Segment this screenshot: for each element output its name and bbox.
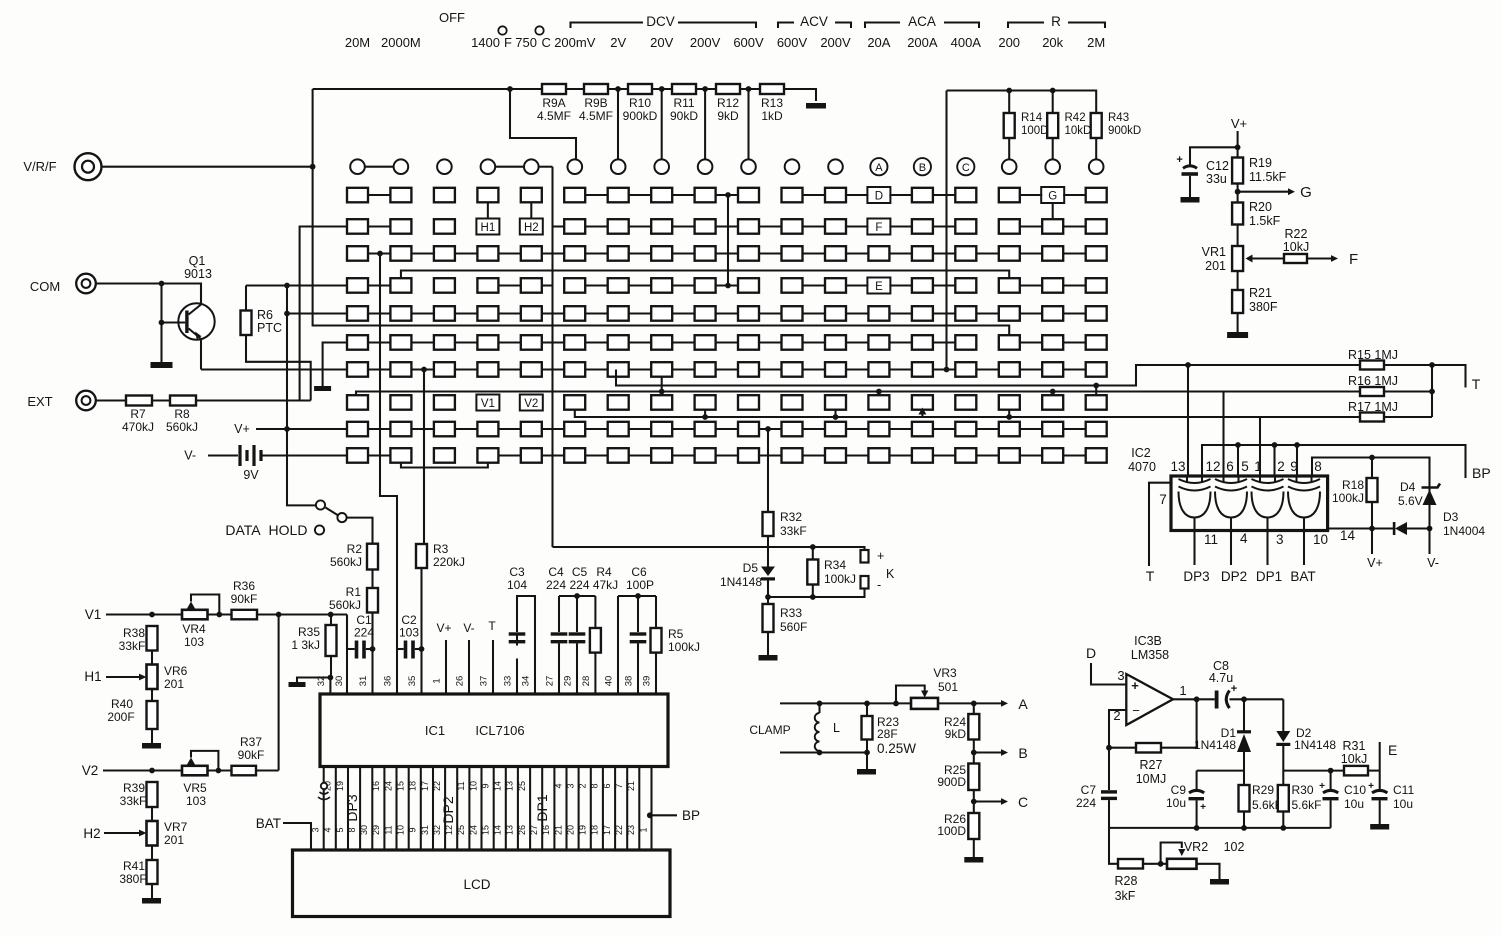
svg-text:200V: 200V: [820, 35, 851, 50]
node D5 junction: [765, 594, 771, 600]
node lineB vert junction: [1429, 389, 1435, 395]
wire R29 down: [1243, 812, 1245, 828]
svg-text:3: 3: [1276, 532, 1284, 547]
wire row6 chains: [368, 341, 1086, 343]
svg-text:H2: H2: [83, 826, 100, 841]
ground after R13: [806, 103, 826, 109]
svg-text:B: B: [919, 162, 926, 174]
switch contact row 1: [347, 188, 1107, 203]
svg-text:R32: R32: [780, 510, 802, 524]
wire C1 leads: [347, 648, 373, 650]
svg-text:BP: BP: [682, 808, 700, 823]
node lineA col18 stub: [1093, 383, 1099, 396]
ground C12: [1181, 197, 1200, 203]
contact minus: [861, 576, 882, 592]
svg-text:DP2: DP2: [1221, 569, 1247, 584]
wire R33 ground: [767, 632, 769, 655]
resistor R37: [232, 735, 265, 775]
svg-text:H1: H1: [481, 222, 496, 234]
resistor R41: [119, 859, 157, 886]
node V+ net row4: [284, 283, 290, 289]
node R35 top: [328, 612, 334, 618]
svg-text:1N4148: 1N4148: [1294, 738, 1336, 752]
wire R30R31 rail: [1283, 770, 1379, 772]
ground row6 stub: [314, 386, 331, 391]
svg-text:R20: R20: [1249, 200, 1272, 214]
svg-text:2: 2: [1277, 459, 1285, 474]
svg-text:VR7: VR7: [164, 820, 188, 834]
wire H1 stub: [487, 202, 489, 218]
node B circled: [914, 158, 931, 175]
svg-text:+: +: [1319, 781, 1325, 792]
svg-text:14: 14: [493, 825, 503, 835]
resistor R20: [1232, 200, 1281, 228]
node pin32 junction: [328, 675, 334, 681]
svg-text:18: 18: [408, 781, 418, 791]
switch contact row 10: [347, 448, 1107, 463]
node output: [1194, 696, 1200, 702]
wire K line: [553, 547, 865, 550]
node V+ row9: [284, 426, 290, 432]
svg-text:R15 1MJ: R15 1MJ: [1348, 348, 1398, 362]
node lineC col14 arrow: [918, 408, 926, 418]
svg-text:1: 1: [1179, 683, 1186, 698]
wire C9R29 rail: [1197, 771, 1244, 789]
wire R7-R8: [152, 399, 170, 401]
svg-text:R34: R34: [824, 558, 846, 572]
svg-text:200mV: 200mV: [554, 35, 596, 50]
svg-text:VR5: VR5: [183, 781, 207, 795]
range labels row: [345, 10, 1105, 50]
label IC2 pin8: [1314, 459, 1322, 474]
wire bottom rail: [1108, 827, 1330, 829]
diode D4 zener: [1398, 480, 1440, 508]
resistor R33: [763, 604, 808, 634]
svg-text:BAT: BAT: [256, 816, 281, 831]
svg-text:37: 37: [479, 676, 490, 687]
wire VR5-R37: [208, 769, 232, 771]
node V+ net row5: [284, 311, 290, 317]
wire G line: [1238, 184, 1312, 201]
resistor R26: [937, 802, 979, 858]
svg-text:21: 21: [553, 825, 563, 835]
svg-text:16: 16: [541, 825, 551, 835]
svg-text:R22: R22: [1285, 227, 1308, 241]
node R24 top: [971, 701, 977, 707]
wire pin26 Vminus: [463, 621, 474, 694]
svg-text:D3: D3: [1443, 510, 1459, 524]
capacitor C5: [569, 565, 590, 643]
wire C9 down: [1196, 800, 1198, 828]
svg-text:14: 14: [1340, 528, 1356, 543]
wire pin8 R18 line: [1312, 458, 1430, 486]
svg-text:35: 35: [407, 676, 418, 687]
wire IC2 pin1 from R17: [1259, 417, 1261, 476]
svg-text:8: 8: [590, 783, 600, 788]
label DP1 rotated: [534, 794, 550, 821]
switch contact row 9: [347, 422, 1107, 437]
label BP right: [1472, 465, 1491, 481]
svg-text:2M: 2M: [1087, 35, 1105, 50]
svg-text:3: 3: [1117, 668, 1124, 683]
svg-text:20A: 20A: [867, 35, 890, 50]
node D1 top: [1241, 696, 1247, 702]
wire C6R5 rail: [618, 596, 656, 694]
svg-text:T: T: [488, 619, 496, 633]
svg-text:31: 31: [358, 676, 369, 687]
svg-text:ACV: ACV: [800, 14, 828, 29]
svg-text:29: 29: [371, 825, 381, 835]
svg-text:1: 1: [638, 827, 648, 832]
svg-text:3kF: 3kF: [1115, 889, 1136, 903]
wire gate outputs: [1195, 531, 1305, 566]
svg-text:+: +: [1131, 678, 1139, 693]
junction R14: [1006, 88, 1012, 160]
svg-text:R7: R7: [130, 407, 146, 421]
svg-text:R27: R27: [1140, 758, 1163, 772]
wire R6 bottom loop: [246, 335, 311, 401]
battery 9V: [184, 445, 347, 482]
svg-text:DP2: DP2: [440, 796, 456, 823]
node row4 junction col10: [725, 283, 731, 289]
wire E stub: [1380, 742, 1398, 771]
resistor R29: [1239, 783, 1283, 812]
svg-text:4.7u: 4.7u: [1209, 671, 1233, 685]
label IC2 pin13: [1170, 459, 1185, 474]
svg-text:C: C: [962, 162, 970, 174]
label DP3 rotated: [344, 794, 360, 821]
wire VR7-R41: [151, 846, 153, 861]
node lineC col16 stub: [1006, 410, 1012, 420]
resistor R25: [937, 753, 979, 802]
svg-text:600V: 600V: [777, 35, 808, 50]
svg-text:C7: C7: [1081, 783, 1097, 797]
node COM junction: [159, 281, 165, 287]
svg-text:23: 23: [626, 825, 636, 835]
label IC2 pin1: [1254, 459, 1262, 474]
svg-text:560kJ: 560kJ: [329, 598, 361, 612]
wire R35 bottom: [330, 656, 332, 678]
resistor R27: [1136, 743, 1167, 786]
node C5 top: [574, 593, 580, 599]
capacitor C2: [399, 613, 419, 659]
svg-text:R43: R43: [1108, 112, 1129, 124]
svg-text:V-: V-: [463, 621, 474, 635]
resistor R34: [807, 547, 856, 597]
svg-text:4: 4: [553, 783, 563, 788]
resistor R6: [241, 308, 283, 335]
svg-text:9kD: 9kD: [945, 727, 967, 741]
svg-text:DP3: DP3: [1183, 569, 1209, 584]
svg-text:H1: H1: [84, 669, 101, 684]
node row7 junction col14: [944, 367, 950, 373]
wire IC2 pin6 from R16: [1222, 392, 1224, 477]
svg-text:103: 103: [399, 626, 419, 640]
node row1 junction: [725, 192, 731, 198]
svg-text:1kD: 1kD: [761, 109, 783, 123]
svg-text:R40: R40: [111, 697, 133, 711]
wire V1 link to V2: [278, 615, 280, 771]
node rail R29: [1241, 825, 1247, 831]
diode D3: [1393, 510, 1486, 538]
svg-text:501: 501: [938, 680, 958, 694]
label IC2 pin9: [1290, 459, 1298, 474]
label IC2 pin3: [1276, 532, 1284, 547]
svg-text:C6: C6: [631, 565, 647, 579]
wire D1 down: [1243, 752, 1245, 785]
svg-text:5.6V: 5.6V: [1398, 494, 1423, 508]
svg-text:E: E: [875, 281, 883, 293]
resistor R10: [623, 84, 658, 123]
svg-text:29: 29: [563, 676, 574, 687]
wire C10 down: [1330, 800, 1332, 828]
resistor R31: [1341, 739, 1368, 775]
svg-text:4: 4: [323, 827, 333, 832]
ground R23: [857, 769, 876, 775]
svg-text:L: L: [833, 721, 840, 735]
wire C11 ground: [1379, 800, 1381, 824]
svg-text:10kJ: 10kJ: [1341, 752, 1367, 766]
wire minus line: [768, 589, 865, 598]
svg-text:DP1: DP1: [1256, 569, 1282, 584]
label CLAMP: [749, 723, 790, 737]
switch contact row 4: [347, 278, 1107, 293]
svg-text:R4: R4: [596, 565, 612, 579]
svg-text:1 3kJ: 1 3kJ: [291, 638, 320, 652]
svg-text:12: 12: [1205, 459, 1220, 474]
label V+ battery: [234, 422, 347, 436]
svg-text:R17 1MJ: R17 1MJ: [1348, 400, 1398, 414]
wire C10 stem: [1330, 771, 1332, 789]
svg-text:0.25W: 0.25W: [877, 741, 916, 756]
wire row9 chain: [368, 428, 1086, 430]
svg-text:30: 30: [334, 676, 345, 687]
svg-text:36: 36: [383, 676, 394, 687]
wire R41 ground: [151, 884, 153, 898]
svg-text:1N4004: 1N4004: [1443, 524, 1485, 538]
resistor R17: [1348, 400, 1398, 422]
svg-text:7: 7: [614, 783, 624, 788]
terminal COM: [30, 274, 96, 294]
svg-text:104: 104: [507, 578, 527, 592]
capacitor C11: [1368, 781, 1414, 811]
node BP pin2: [1272, 442, 1278, 476]
svg-text:600V: 600V: [733, 35, 764, 50]
resistor R1: [329, 585, 378, 613]
svg-text:17: 17: [602, 825, 612, 835]
svg-text:5: 5: [335, 827, 345, 832]
svg-text:+: +: [877, 549, 884, 563]
svg-text:900kD: 900kD: [1108, 125, 1141, 137]
node R18 top: [1369, 455, 1375, 478]
svg-text:1N4148: 1N4148: [1194, 738, 1236, 752]
svg-text:220kJ: 220kJ: [433, 555, 465, 569]
svg-text:224: 224: [1076, 796, 1096, 810]
wire row4 feed: [246, 284, 347, 286]
svg-text:EXT: EXT: [27, 394, 52, 409]
svg-text:V-: V-: [1427, 556, 1439, 570]
svg-text:V/R/F: V/R/F: [23, 159, 56, 174]
node V1 R38: [149, 612, 155, 618]
svg-text:R14: R14: [1021, 112, 1043, 124]
wire C12 branch: [1190, 147, 1238, 164]
resistor R22: [1283, 227, 1309, 263]
svg-text:103: 103: [186, 794, 206, 808]
svg-text:9V: 9V: [243, 468, 259, 482]
svg-text:7: 7: [1159, 492, 1167, 507]
svg-text:90kF: 90kF: [231, 592, 258, 606]
wire VR6-R40: [151, 689, 153, 701]
wire V2 to VR5: [152, 769, 182, 771]
wire R38-VR6: [151, 651, 153, 665]
svg-text:R9B: R9B: [584, 96, 607, 110]
svg-text:400A: 400A: [951, 35, 982, 50]
svg-text:10u: 10u: [1166, 796, 1186, 810]
svg-text:R6: R6: [257, 308, 273, 322]
svg-text:D: D: [875, 191, 883, 203]
wire COM: [96, 284, 201, 304]
svg-text:R38: R38: [123, 626, 145, 640]
svg-text:VR6: VR6: [164, 664, 188, 678]
node R34 bottom: [810, 594, 816, 600]
svg-text:R41: R41: [123, 859, 145, 873]
switch contact row 3: [347, 246, 1107, 261]
svg-text:DP3: DP3: [344, 794, 360, 821]
svg-text:R11: R11: [673, 96, 694, 110]
svg-text:900kD: 900kD: [623, 109, 658, 123]
svg-text:100P: 100P: [626, 578, 654, 592]
svg-text:13: 13: [505, 781, 515, 791]
display LCD box: [293, 850, 671, 917]
svg-text:20M: 20M: [345, 35, 370, 50]
wire row7 chain: [368, 368, 1086, 370]
svg-text:102: 102: [1224, 840, 1245, 854]
resistor R30: [1278, 783, 1322, 812]
svg-text:D4: D4: [1400, 480, 1416, 494]
wire pin1 Vplus: [436, 621, 451, 694]
resistor R35: [291, 625, 336, 656]
svg-text:V+: V+: [234, 422, 250, 436]
svg-text:R10: R10: [629, 96, 651, 110]
svg-text:F: F: [504, 35, 512, 50]
potentiometer VR3: [896, 666, 958, 709]
switch contact row 2: [347, 219, 1107, 234]
node rail R30: [1280, 825, 1286, 831]
svg-text:D: D: [1086, 645, 1096, 661]
label DP3: [1183, 569, 1209, 584]
wire G stub: [1052, 203, 1054, 219]
wire V+ net vertical: [287, 286, 316, 506]
svg-text:K: K: [886, 567, 895, 581]
wire row3 chain: [368, 252, 1086, 254]
switch contact row 8: [347, 395, 1107, 410]
svg-text:1: 1: [432, 678, 443, 683]
resistor R4: [590, 565, 618, 653]
svg-text:V+: V+: [1231, 116, 1247, 131]
svg-text:4: 4: [1240, 531, 1248, 546]
svg-text:+: +: [1176, 154, 1182, 166]
wire D4 to V-: [1427, 529, 1439, 571]
svg-text:21: 21: [626, 781, 636, 791]
node A circled: [870, 158, 887, 175]
label K: [886, 567, 895, 581]
transistor Q1: [162, 254, 215, 370]
svg-text:24: 24: [468, 825, 478, 835]
junction node top rail to circle6 branch: [507, 86, 576, 159]
node BP pin9: [1294, 442, 1300, 476]
node E box: [867, 278, 890, 294]
wire pin32 ground: [297, 678, 330, 695]
svg-text:13: 13: [1170, 459, 1185, 474]
resistor R21: [1232, 286, 1278, 314]
svg-text:32: 32: [432, 825, 442, 835]
wire D2 down: [1282, 746, 1284, 785]
svg-text:C3: C3: [509, 565, 525, 579]
svg-text:14: 14: [493, 781, 503, 791]
svg-text:R: R: [1051, 14, 1061, 29]
wire R20-VR1: [1237, 225, 1239, 247]
svg-text:R18: R18: [1342, 478, 1364, 492]
wire V1 to C1: [346, 615, 348, 650]
node BP pin: [647, 812, 653, 818]
svg-text:224: 224: [354, 626, 374, 640]
svg-text:22: 22: [614, 825, 624, 835]
svg-text:19: 19: [335, 781, 345, 791]
svg-text:11: 11: [383, 825, 393, 834]
svg-text:+: +: [1200, 802, 1206, 813]
node C6 top: [635, 593, 641, 599]
potentiometer VR6: [106, 664, 188, 691]
wire R6 top: [245, 286, 247, 311]
svg-text:R36: R36: [233, 579, 255, 593]
node VR2 loop: [1158, 861, 1164, 867]
label T right: [1472, 376, 1481, 392]
IC1 bottom pin numbers upper: [323, 781, 636, 791]
svg-text:2000M: 2000M: [381, 35, 421, 50]
svg-text:38: 38: [624, 676, 635, 687]
svg-text:C: C: [542, 35, 551, 50]
svg-text:26: 26: [517, 825, 527, 835]
svg-text:8: 8: [1314, 459, 1322, 474]
switch contact row 7: [347, 362, 1107, 377]
svg-text:G: G: [1300, 184, 1312, 201]
svg-text:750: 750: [515, 35, 537, 50]
resistor R19: [1232, 156, 1287, 184]
svg-text:34: 34: [521, 676, 532, 687]
R bracket: [1008, 14, 1105, 29]
wire row2 chains: [368, 225, 1086, 227]
wire R39-VR7: [151, 807, 153, 821]
svg-text:100kJ: 100kJ: [1332, 491, 1364, 505]
svg-text:1: 1: [1254, 459, 1262, 474]
potentiometer VR2: [1161, 840, 1245, 869]
svg-text:IC1: IC1: [425, 723, 445, 738]
wire clamp upper: [780, 700, 1008, 707]
label DP1: [1256, 569, 1282, 584]
svg-text:C4: C4: [548, 565, 564, 579]
svg-text:380F: 380F: [1249, 300, 1278, 314]
svg-text:25: 25: [517, 781, 527, 791]
node VR4 right: [216, 612, 222, 618]
svg-text:4.5MF: 4.5MF: [579, 109, 613, 123]
wire R32-D5: [767, 536, 769, 567]
resistor R5: [651, 627, 701, 654]
svg-text:R8: R8: [174, 407, 190, 421]
resistor R7: [122, 396, 154, 435]
wire row10 bypass: [401, 463, 488, 468]
op-amp IC3B: [1113, 668, 1186, 725]
IC2 XOR gates: [1179, 476, 1321, 531]
